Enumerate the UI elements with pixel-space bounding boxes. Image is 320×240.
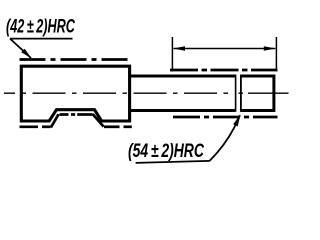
dimension arrowhead left	[173, 46, 185, 50]
dimension extension line right	[275, 37, 277, 72]
centerline overhang past right end	[248, 92, 289, 94]
leader line for (54±2)HRC : shelf	[136, 161, 210, 163]
shaft bottom edge left of groove	[129, 109, 235, 112]
hardened zone chain above head	[20, 58, 133, 61]
svg-text:(54 ± 2)HRC: (54 ± 2)HRC	[128, 140, 205, 162]
leader arrowhead top	[21, 49, 31, 59]
shaft top edge left of groove	[129, 75, 236, 78]
dimension extension line left	[171, 37, 173, 72]
centerline dot at groove	[239, 92, 244, 94]
leader line for (42±2)HRC : diagonal	[10, 39, 31, 58]
dimension arrowhead right	[264, 46, 276, 50]
leader line for (42±2)HRC : shelf	[10, 38, 73, 40]
leader line for (54±2)HRC : diagonal	[209, 115, 240, 161]
svg-text:(42 ± 2)HRC: (42 ± 2)HRC	[6, 16, 75, 37]
groove left wall	[235, 75, 237, 112]
shaft right segment outline	[241, 76, 274, 111]
dimension line	[174, 48, 276, 50]
centerline of shaft	[4, 92, 233, 94]
hardened zone chain below head (follows bump profile)	[20, 114, 132, 127]
groove right wall / right segment left edge	[240, 75, 242, 112]
head block outline	[21, 66, 129, 121]
leader arrowhead bottom	[233, 115, 240, 127]
hardened zone chain above shaft	[170, 69, 278, 72]
hardened zone chain below shaft	[173, 116, 278, 119]
